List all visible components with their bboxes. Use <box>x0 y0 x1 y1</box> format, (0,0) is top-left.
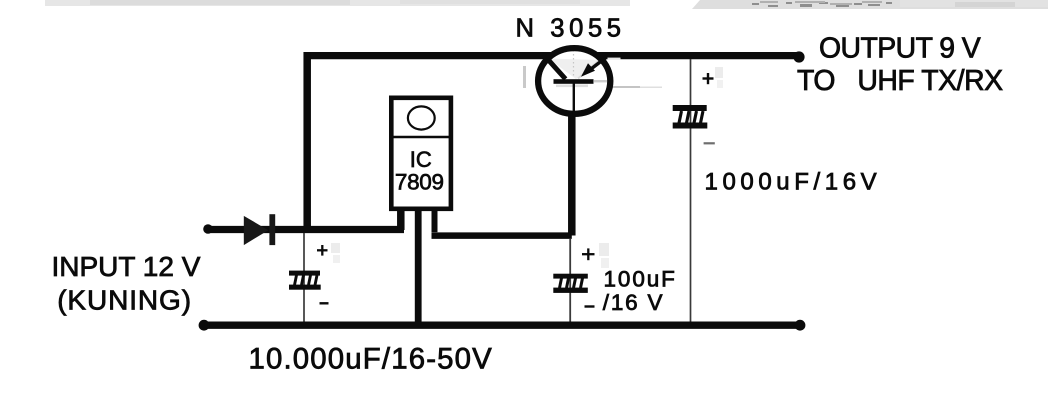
wire: bottom ground rail <box>204 322 800 329</box>
pin 1 of U1 (input, left) <box>397 209 405 230</box>
transistor Q1 (N 3055) <box>538 48 620 115</box>
pin 2 of U1 (ground, centre) down to bottom rail <box>415 209 422 328</box>
node: output rail end dot <box>793 51 804 62</box>
label IC 7809 <box>395 147 444 195</box>
svg-text:(KUNING): (KUNING) <box>57 284 192 315</box>
svg-text:OUTPUT 9 V: OUTPUT 9 V <box>819 32 981 64</box>
C2 plus mark <box>582 248 595 260</box>
svg-text:N 3055: N 3055 <box>516 15 626 43</box>
svg-text:1000uF/16V: 1000uF/16V <box>705 168 882 195</box>
wire: U1 output to emitter node <box>432 232 572 239</box>
svg-text:INPUT 12 V: INPUT 12 V <box>52 251 201 282</box>
label 100uF /16 V <box>603 266 677 315</box>
capacitor C2 (100uF) <box>553 239 588 322</box>
svg-text:IC: IC <box>410 147 432 172</box>
wire: emitter of Q1 down to output wire <box>568 112 576 236</box>
svg-text:100uF: 100uF <box>604 266 677 291</box>
pin 3 of U1 (output, right) <box>432 209 438 232</box>
regulator U1 IC 7809 (TO-220 outline) <box>391 98 451 209</box>
wire: top positive rail <box>304 52 800 59</box>
C1 plus mark <box>317 245 328 256</box>
wire: input wire with start dot <box>203 224 404 234</box>
C1 minus mark <box>320 302 329 304</box>
svg-text:/16 V: /16 V <box>603 290 665 315</box>
node: ground rail right end dot <box>795 320 806 331</box>
node: ground rail left end dot <box>199 320 210 331</box>
capacitor C3 (1000uF) <box>673 59 708 322</box>
svg-text:7809: 7809 <box>395 170 444 195</box>
wire: left vertical from top rail down to input junction <box>303 52 311 231</box>
C2 minus mark <box>585 305 595 307</box>
C3 plus mark <box>703 73 714 84</box>
svg-text:10.000uF/16-50V: 10.000uF/16-50V <box>249 342 493 375</box>
capacitor C1 (input electrolytic) <box>289 233 321 322</box>
diode D1 <box>244 214 275 245</box>
svg-text:TO UHF TX/RX: TO UHF TX/RX <box>797 65 1003 97</box>
C3 minus mark <box>704 142 715 144</box>
decorative scan bands (unlabelled, drawn first) <box>45 0 630 6</box>
